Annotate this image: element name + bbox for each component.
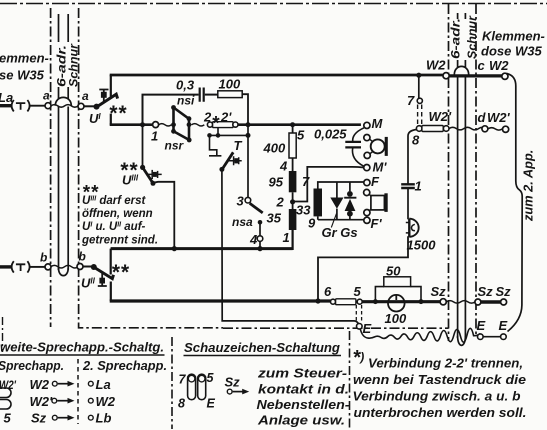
svg-text:1500: 1500 — [407, 238, 437, 253]
capacitor C 0,025 plates — [345, 142, 361, 148]
svg-text:100: 100 — [385, 311, 407, 326]
resistor R 50 bypass loop — [375, 287, 421, 302]
cord right: bottom end loop — [458, 336, 466, 345]
contact U-I pivot and feed wire — [84, 105, 94, 107]
svg-text:Schnur: Schnur — [465, 15, 479, 59]
svg-text:50: 50 — [386, 264, 401, 279]
jack loops bottom left edge — [0, 388, 11, 398]
junction lamp branch right — [419, 299, 424, 304]
winding 95 body — [289, 171, 297, 192]
svg-text:Lb: Lb — [96, 410, 112, 425]
svg-text:100: 100 — [219, 77, 241, 92]
svg-text:b: b — [79, 250, 86, 264]
node 8 circle of link W2' — [416, 126, 422, 132]
svg-text:E: E — [207, 397, 216, 411]
circle M' — [364, 165, 370, 171]
terminal W2 right circle — [502, 73, 508, 79]
svg-text:Verbindung 2-2' trennen,: Verbindung 2-2' trennen, — [368, 356, 523, 371]
terminal Lb arcs — [12, 261, 30, 272]
wire capacitor 1 to buzzer 1500 — [407, 188, 409, 219]
cord left: crossover arch over wire a — [55, 97, 71, 105]
svg-text:kontakt in d.: kontakt in d. — [258, 383, 349, 397]
svg-text:**: ** — [111, 261, 129, 284]
contact U-III blade — [143, 167, 153, 183]
cord left: wire pair — [59, 14, 69, 270]
cord right: dash-dot boundary line 1 — [448, 4, 450, 341]
buzzer 1500 body — [408, 219, 410, 237]
wire return horizontal (y249) — [111, 247, 293, 250]
svg-text:W2: W2 — [426, 58, 446, 73]
wire Sz horizontal — [110, 299, 331, 302]
svg-text:4: 4 — [279, 159, 288, 174]
wire vertical 3-branch — [247, 125, 249, 198]
svg-text:M: M — [372, 116, 384, 131]
svg-text:1: 1 — [283, 230, 290, 245]
svg-text:8: 8 — [178, 397, 185, 411]
svg-text:0,025: 0,025 — [314, 127, 347, 142]
divider dash-dot bottom middle/right — [349, 331, 351, 429]
svg-text:emmen-: emmen- — [0, 51, 49, 66]
node 4 — [257, 236, 263, 242]
contact nsr blade — [174, 131, 190, 140]
svg-text:se W35: se W35 — [0, 68, 45, 83]
row 3 contact circle and arrow — [52, 415, 57, 420]
wire resistor 100 to corner down — [242, 94, 248, 125]
circle F — [364, 180, 370, 186]
svg-text:Verbindung zwisch. a u. b: Verbindung zwisch. a u. b — [353, 389, 521, 404]
node a (right of cord) — [78, 103, 84, 109]
svg-text:F: F — [371, 174, 380, 189]
border left bottom dash-dot — [2, 317, 4, 352]
svg-text:Schnur: Schnur — [67, 43, 81, 87]
cord right: crossover arch over W2 wire — [454, 66, 468, 74]
terminal W2' right circle — [503, 126, 509, 132]
wire from T down to E line — [222, 169, 359, 324]
svg-text:Anlage usw.: Anlage usw. — [257, 414, 345, 428]
cord right: wire pair — [458, 13, 466, 338]
terminal La arcs — [12, 100, 30, 111]
circle M receiver bottom — [364, 152, 370, 158]
contact U-I upper throw from top wire — [110, 75, 112, 97]
dashed column divider left table — [77, 359, 79, 424]
row 3 circle right — [88, 415, 93, 420]
svg-text:5: 5 — [354, 284, 362, 299]
cord left: bottom end loop — [59, 268, 69, 276]
svg-text:Nebenstellen-: Nebenstellen- — [257, 398, 350, 412]
svg-text:2. Sprechapp.: 2. Sprechapp. — [82, 358, 167, 373]
capacitor C 1 plates — [401, 184, 415, 188]
node b (left of cord) — [45, 264, 51, 270]
svg-text:0,3: 0,3 — [176, 78, 195, 93]
svg-text:nsr: nsr — [165, 139, 185, 153]
leader line Gr Gs label — [331, 214, 336, 228]
wire node2 tap to M' — [293, 167, 364, 202]
resistor R 400 body — [289, 133, 296, 158]
wire squiggle nsr to node 2 — [192, 124, 205, 126]
cord left: dash-dot boundary line 2 with corner to horizontal separator — [79, 8, 223, 328]
terminal c circle on W2 wire — [443, 73, 449, 79]
svg-text:3: 3 — [237, 194, 245, 209]
svg-text:95: 95 — [269, 175, 284, 190]
wire W2 top horizontal — [110, 74, 444, 77]
svg-text:1: 1 — [415, 179, 422, 194]
node 7 — [417, 98, 422, 103]
svg-text:35: 35 — [267, 211, 282, 226]
wire main after link — [238, 123, 361, 126]
node 2 circle of link — [207, 122, 212, 127]
svg-text:d: d — [478, 110, 487, 125]
svg-text:Klemmen-: Klemmen- — [482, 29, 545, 44]
svg-text:8: 8 — [412, 133, 420, 148]
wire node 8 down to capacitor 1 — [408, 130, 417, 185]
wire squiggle Sz through cord — [446, 301, 475, 304]
svg-text:weite-Sprechapp.-Schaltg.: weite-Sprechapp.-Schaltg. — [0, 340, 164, 355]
svg-text:2: 2 — [276, 195, 285, 210]
svg-text:getrennt sind.: getrennt sind. — [81, 235, 158, 247]
svg-text:W2': W2' — [487, 110, 511, 125]
svg-text:La: La — [96, 377, 111, 392]
svg-text:Sprechapp.: Sprechapp. — [0, 358, 64, 373]
svg-text:nsa: nsa — [232, 215, 253, 229]
capacitor 0,025 connection curves — [352, 128, 364, 167]
resistor chain: junction node 5 — [290, 122, 295, 127]
wire La (a) entry with terminal symbol — [0, 104, 12, 107]
link 6-5 body — [336, 299, 356, 305]
svg-text:La: La — [0, 90, 13, 105]
lower tap line under link — [210, 134, 249, 136]
wire Sz continues — [362, 300, 440, 303]
wire winding 35 down to return wire — [292, 230, 294, 250]
winding 33 frame top rail — [318, 182, 364, 220]
row 1 contact circle and arrow — [52, 381, 57, 386]
capacitor C 0,3 plates — [200, 88, 204, 102]
svg-text:a: a — [82, 89, 89, 103]
svg-text:Sz: Sz — [431, 284, 447, 299]
svg-text:2': 2' — [220, 110, 232, 125]
lamp 100 body — [388, 295, 405, 312]
terminal La T mark — [16, 103, 25, 110]
svg-text:1: 1 — [151, 129, 158, 144]
contact U-I push actuator mark — [99, 89, 108, 102]
svg-text:nsi: nsi — [177, 94, 195, 108]
separator dash-dot continues under E wire to right cord — [223, 327, 449, 329]
junction lamp branch left — [373, 299, 378, 304]
junction at 0,3 branch — [140, 122, 145, 127]
svg-text:dose W35: dose W35 — [481, 44, 542, 59]
svg-text:F': F' — [371, 216, 383, 231]
svg-text:5: 5 — [207, 371, 215, 385]
junction dots nsi/nsr rails on main wire — [171, 122, 176, 127]
wire branch up to 0,3 capacitor — [143, 95, 199, 125]
row 2 contact circle and arrow — [52, 398, 57, 403]
junction on W2 wire to node 7 — [416, 73, 421, 78]
svg-text:a: a — [43, 89, 50, 103]
link 6-5 circle 5 — [357, 299, 362, 304]
fixed contact lead of T — [209, 135, 221, 155]
divider dash-dot bottom left/middle — [171, 337, 173, 429]
svg-text:unterbrochen werden soll.: unterbrochen werden soll. — [354, 405, 527, 420]
cord left: dash-dot boundary line 1 — [50, 8, 52, 327]
jack capsule 7-8 — [188, 374, 196, 400]
node 1 — [153, 122, 159, 128]
svg-text:5: 5 — [4, 410, 12, 425]
dashed strap 7 to 8 — [418, 105, 422, 126]
circle M — [364, 122, 370, 128]
terminal E pair right — [478, 334, 484, 340]
svg-text:UI u. UII auf-: UI u. UII auf- — [82, 221, 146, 233]
contact U-III push actuator mark — [146, 170, 161, 179]
row 2 circle right — [88, 398, 93, 403]
svg-text:5: 5 — [297, 128, 305, 143]
node 3 — [245, 197, 251, 203]
node 2 tap — [290, 199, 295, 204]
svg-text:W2: W2 — [30, 377, 50, 392]
circle F indicator top — [364, 189, 370, 195]
node E — [357, 324, 363, 330]
Sz contact circle and arrow — [227, 389, 232, 394]
rectifier Gr — [336, 182, 338, 198]
thick strap c to W2 terminal — [449, 74, 502, 77]
svg-text:Sz: Sz — [31, 410, 47, 425]
wire squiggle W2' to terminals d — [449, 127, 486, 130]
heading underline middle — [184, 355, 342, 357]
contact T blade — [222, 152, 233, 169]
terminal Sz circle left — [440, 299, 446, 305]
svg-text:E: E — [499, 318, 508, 333]
svg-text:E: E — [477, 318, 486, 333]
contact nsa lower dot and lead — [258, 220, 263, 225]
link W2' body — [422, 126, 443, 132]
resistor R 50 body — [384, 277, 411, 287]
circle M receiver top — [364, 135, 370, 141]
svg-text:**: ** — [120, 159, 138, 182]
brace zum 2. App. — [507, 74, 523, 332]
dashed strap 5 to E — [356, 305, 361, 322]
svg-text:7: 7 — [407, 93, 415, 108]
wire cap to resistor 100 — [205, 94, 218, 96]
svg-text:M': M' — [373, 160, 388, 175]
node b (right of cord) — [77, 264, 83, 270]
link W2' right circle — [443, 126, 449, 132]
wire b to first circle — [30, 266, 46, 268]
svg-text:W2: W2 — [96, 394, 116, 409]
wire buzzer down and left to Sz wire — [318, 236, 408, 301]
wire a squiggle through cord — [51, 105, 78, 108]
junction main/vertical T-branch — [246, 122, 251, 127]
svg-text:9: 9 — [308, 216, 316, 231]
contact U-II pivot and blade — [83, 266, 92, 268]
svg-text:wenn bei Tastendruck die: wenn bei Tastendruck die — [353, 372, 526, 387]
contact end dots nsi/nsr — [171, 105, 176, 110]
wire U-III to return wire — [153, 182, 174, 249]
svg-text:W2': W2' — [429, 109, 453, 124]
wire a to first circle — [30, 105, 46, 107]
terminal Lb T mark — [16, 264, 25, 271]
wire main horizontal (a branch) — [110, 123, 153, 126]
svg-text:W2: W2 — [489, 58, 509, 73]
svg-text:T: T — [234, 138, 243, 153]
svg-text:6-adr.: 6-adr. — [449, 18, 463, 59]
wire Lb (b) entry with terminal symbol — [0, 265, 12, 268]
jack capsule 5-E — [198, 374, 206, 400]
contact U-I lower throw stub to main wire — [110, 114, 112, 125]
contact U-I blade — [95, 94, 118, 108]
contact U-II lower throw to Sz wire — [110, 282, 112, 301]
terminal d circle — [482, 126, 488, 132]
svg-text:6: 6 — [324, 284, 332, 299]
cord right: dash-dot boundary line 2 — [475, 4, 477, 336]
link 2-2' body — [213, 122, 234, 128]
svg-text:Sz: Sz — [478, 284, 494, 299]
indicator lamp symbol at F — [371, 196, 385, 210]
contact nsa blade — [250, 203, 263, 213]
circle F' — [364, 217, 370, 223]
node 2' circle of link — [233, 122, 238, 127]
svg-text:c: c — [478, 58, 486, 73]
receiver earpiece symbol at M — [371, 139, 385, 153]
winding 33 body — [314, 189, 323, 217]
svg-text:b: b — [40, 251, 47, 265]
wire b squiggle through cord — [51, 265, 78, 268]
row 1 circle right — [88, 381, 93, 386]
border top dash-dot — [0, 3, 547, 5]
svg-text:öffnen, wenn: öffnen, wenn — [82, 208, 153, 220]
svg-text:E: E — [363, 321, 372, 336]
contact U-III pivot on 0,3 branch vertical — [142, 125, 144, 166]
node a (left of cord) — [45, 103, 51, 109]
svg-text:4: 4 — [249, 232, 258, 247]
svg-text:7: 7 — [179, 373, 187, 387]
contact U-II push actuator mark — [98, 274, 107, 287]
svg-text:zum Steuer-: zum Steuer- — [257, 367, 347, 381]
svg-text:zum 2. App.: zum 2. App. — [521, 150, 536, 222]
svg-text:W2': W2' — [30, 394, 54, 409]
contact T push actuator mark — [229, 156, 242, 165]
svg-text:400: 400 — [263, 141, 286, 156]
winding 35 body — [289, 209, 297, 230]
terminal Sz pair right — [475, 299, 481, 305]
svg-text:**: ** — [109, 102, 127, 125]
contact U-II upper throw from return wire — [110, 249, 112, 275]
svg-text:Sz: Sz — [496, 284, 512, 299]
svg-text:Schauzeichen-Schaltung: Schauzeichen-Schaltung — [184, 340, 340, 355]
resistor R 100 body — [218, 91, 242, 98]
link 6-5 on Sz wire: circle 6 — [331, 299, 336, 304]
rectifier Gs — [349, 182, 351, 191]
heading underline left — [0, 354, 165, 356]
wire squiggle node1 to nsr — [159, 124, 172, 126]
contact nsi blade — [174, 108, 190, 119]
svg-text:7: 7 — [302, 174, 310, 189]
svg-text:Gr Gs: Gr Gs — [322, 225, 358, 240]
wavy earth wire E — [360, 328, 480, 342]
contacts nsi/nsr rails — [174, 107, 190, 140]
circle F indicator bottom — [364, 210, 370, 216]
stub from link to lower tap line — [217, 128, 219, 136]
svg-text:Sz: Sz — [225, 375, 241, 390]
svg-text:W2': W2' — [0, 380, 17, 392]
